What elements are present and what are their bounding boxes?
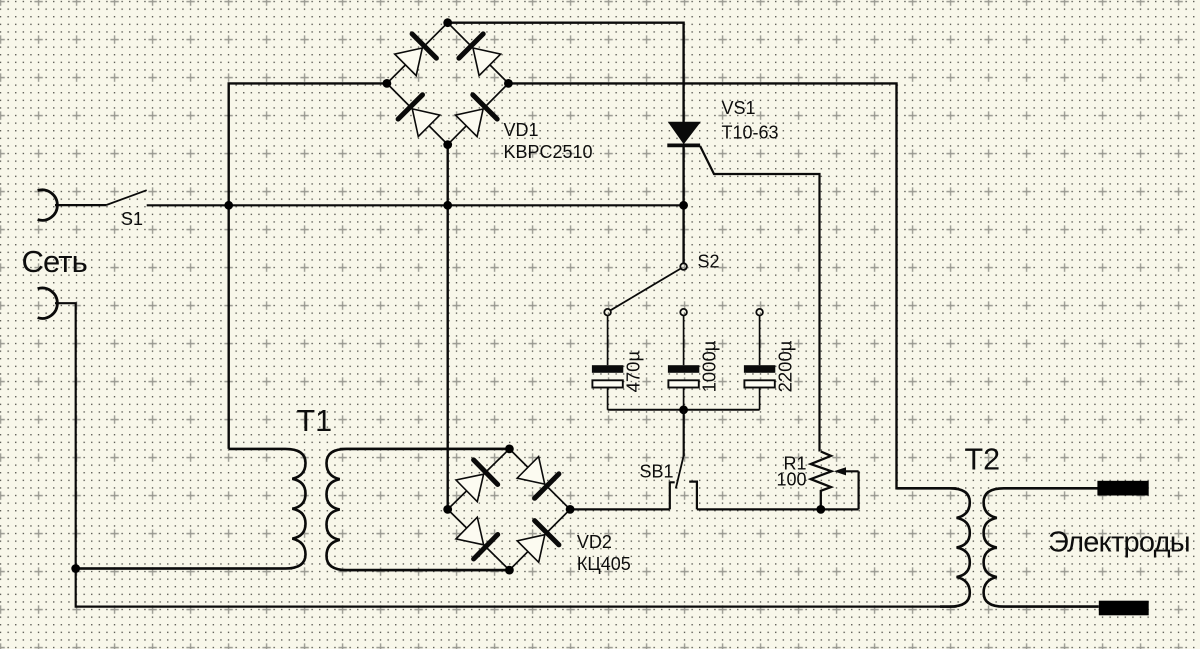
junction VD1 bottom node [443, 140, 452, 149]
transformer T2 primary winding [897, 488, 970, 606]
diode VD2.1 (left to top) [456, 460, 498, 502]
capacitor C3 2200µ branch [744, 309, 796, 410]
switch S1 blade [106, 190, 147, 205]
switch S2 common contact [680, 263, 687, 270]
diode VD2.4 (bottom to right) [517, 521, 559, 563]
thyristor VS1 cathode bar [667, 143, 700, 147]
junction: VS1 cathode / bus [679, 201, 688, 210]
transformer T2 secondary winding [984, 488, 1099, 606]
svg-text:470µ: 470µ [622, 351, 643, 393]
switch S2 blade [611, 269, 681, 311]
wire: S1 to node A [147, 204, 229, 206]
R1 wiper arrow [841, 470, 859, 472]
svg-text:1000µ: 1000µ [698, 340, 719, 392]
svg-text:2200µ: 2200µ [774, 340, 795, 392]
wire: T1 secondary bottom to VD2 bottom node [340, 569, 510, 571]
transformer T1 secondary winding [327, 449, 506, 570]
svg-text:KBPC2510: KBPC2510 [504, 142, 593, 162]
svg-text:SB1: SB1 [640, 462, 674, 482]
capacitor C1 470µ branch [592, 309, 644, 410]
pushbutton SB1 blade [676, 455, 684, 489]
wire: VS1 cathode down to S2 common [682, 147, 684, 263]
pushbutton SB1 left contact [670, 482, 675, 509]
junction VD2 left node [443, 505, 452, 514]
svg-text:Сеть: Сеть [22, 244, 87, 279]
bridge rectifier VD1 diamond frame [387, 23, 509, 145]
wire: VD1 plus node to VS1 anode [448, 23, 684, 123]
svg-text:100: 100 [776, 469, 806, 489]
svg-text:S1: S1 [121, 209, 143, 229]
bridge rectifier VD2 diamond frame [448, 449, 570, 570]
junction VD1 right node [504, 79, 513, 88]
wire: rail down to SB1 blade [683, 410, 685, 456]
diode VD1.2 (right to top) [459, 34, 501, 76]
junction: mains N / T1 primary bottom [71, 564, 80, 573]
connector X2 mains plug (bottom) [38, 288, 58, 318]
wire: mains L plug lead to S1 [55, 204, 106, 206]
junction VD2 right node [566, 505, 575, 514]
electrode bar top [1097, 481, 1148, 496]
junction VD2 top node [505, 445, 514, 454]
junction VD1 left node [383, 79, 392, 88]
wire: VD2 plus node to SB1 [570, 508, 670, 510]
wire: VD1 AC-right node to T2 primary top [508, 83, 956, 488]
svg-text:VD2: VD2 [577, 532, 612, 552]
transformer T1 primary winding [80, 449, 306, 569]
connector X1 mains plug (top) [38, 190, 58, 220]
electrode bar bottom [1099, 601, 1149, 616]
wire: node A horizontal bus to VS1 cathode node [229, 204, 684, 206]
junction: R1 bottom / wiper / gate line [816, 505, 825, 514]
svg-text:VD1: VD1 [504, 120, 539, 140]
diode VD1.1 (left to top) [395, 34, 437, 76]
wire: T1 primary bottom to mains N junction [76, 567, 292, 569]
junction node A (S1 / VD1 / T1) [224, 201, 233, 210]
svg-text:VS1: VS1 [722, 98, 756, 118]
wire: R1 wiper return loop [857, 471, 859, 509]
wire: left vertical from VD1 AC-left node down to T1 primary [229, 83, 387, 449]
svg-text:КЦ405: КЦ405 [577, 554, 631, 574]
resistor R1 zigzag [811, 452, 832, 510]
thyristor VS1 gate lead to R1 [700, 146, 819, 452]
junction: capacitor rail to SB1 [679, 405, 688, 414]
junction VD2 bottom node [505, 566, 514, 575]
svg-text:Электроды: Электроды [1048, 527, 1190, 559]
svg-text:Т1: Т1 [297, 404, 333, 438]
svg-text:Т10-63: Т10-63 [722, 123, 779, 143]
capacitor C2 1000µ branch [668, 309, 720, 410]
svg-text:S2: S2 [698, 251, 720, 271]
wire: capacitor bottom rail [608, 409, 760, 411]
diode VD2.2 (top to right) [517, 457, 559, 499]
wire: T1 secondary top to VD2 top node [340, 448, 510, 450]
junction: bus / VD1-minus riser [443, 201, 452, 210]
wire: VD1 minus node down to VD2 left node [447, 145, 449, 510]
thyristor VS1 anode triangle [669, 122, 700, 143]
diode VD1.4 (bottom to right) [456, 95, 498, 137]
wire: SB1 to R1 bottom junction [697, 508, 859, 510]
diode VD1.3 (bottom to left) [398, 95, 440, 137]
svg-text:Т2: Т2 [965, 442, 1001, 476]
junction VD1 top node [443, 18, 452, 27]
diode VD2.3 (left to bottom) [456, 517, 498, 559]
wire: mains N down left side and along bottom to T2 primary [55, 303, 957, 606]
pushbutton SB1 right contact [689, 482, 697, 510]
